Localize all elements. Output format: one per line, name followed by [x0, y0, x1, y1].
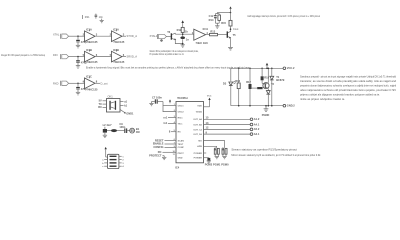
svg-text:OUT_B#: OUT_B#: [193, 124, 202, 126]
wire: [122, 56, 126, 58]
svg-text:IC1A: IC1A: [86, 28, 92, 32]
diode D4: [266, 89, 270, 107]
ground: [162, 157, 166, 159]
wire: [249, 89, 251, 106]
capacitor C5: [180, 36, 189, 41]
svg-text:R13: R13: [210, 30, 215, 34]
svg-text:L2 4m7: L2 4m7: [103, 123, 112, 127]
port symbol row2: [61, 54, 69, 59]
svg-text:POWER: POWER: [194, 153, 203, 155]
svg-text:SCAN: SCAN: [178, 139, 185, 142]
ground: [207, 161, 211, 163]
wire out D: [204, 130, 251, 134]
wire: [122, 35, 126, 37]
capacitor C13 dark: [204, 153, 211, 160]
svg-text:R16: R16: [235, 79, 240, 83]
svg-text:PGM0: PGM0: [221, 162, 229, 166]
svg-text:IC1B: IC1B: [86, 48, 92, 52]
resistor R12: [177, 27, 189, 33]
power VCC small: [169, 99, 171, 103]
resistor R21 dark: [111, 129, 117, 132]
svg-text:4M: 4M: [136, 130, 140, 134]
wire emitter down: [175, 40, 182, 44]
crystal B1: [130, 127, 140, 134]
svg-text:IC2B: IC2B: [113, 48, 119, 52]
svg-text:STXD_A: STXD_A: [127, 34, 138, 38]
svg-text:C12: C12: [209, 14, 214, 18]
wire: [95, 56, 112, 58]
wire opto gnd arrow: [120, 109, 134, 115]
node junction: [249, 68, 251, 70]
svg-text:VDD: VDD: [197, 106, 202, 108]
resistor R19 dark base: [249, 87, 262, 89]
IC right pin labels: [193, 106, 202, 160]
node junction osc: [182, 33, 184, 35]
power VCC dip: [105, 147, 108, 157]
svg-text:IC1C: IC1C: [86, 75, 92, 79]
transistor T5: [227, 31, 237, 38]
node terminal A: [250, 117, 260, 121]
svg-text:RXin: RXin: [178, 117, 184, 119]
wire collector to rail: [175, 33, 194, 35]
svg-text:SRXD_A: SRXD_A: [127, 55, 138, 59]
port symbol xtal1: [157, 34, 166, 39]
svg-text:TDA5051A: TDA5051A: [177, 96, 188, 100]
svg-text:D_out: D_out: [101, 81, 108, 85]
wire: [238, 89, 240, 106]
svg-text:ninite as prijavo odvijedna zn: ninite as prijavo odvijedna znacko te.: [300, 97, 345, 101]
svg-text:GND.2: GND.2: [287, 104, 295, 108]
node junction row1: [77, 35, 79, 37]
node terminal VCC2: [283, 66, 295, 70]
svg-text:74HC125: 74HC125: [87, 60, 99, 64]
wire top rail: [231, 67, 283, 69]
svg-text:RC: RC: [158, 150, 162, 154]
wire out C: [204, 126, 251, 130]
wire pin AD: [168, 122, 176, 124]
resistor pair RP2: [222, 148, 227, 156]
svg-text:CONF: CONF: [178, 147, 185, 149]
svg-text:PROT: PROT: [178, 153, 185, 155]
wire: [107, 130, 111, 132]
svg-text:1n: 1n: [186, 37, 189, 41]
wire: [230, 26, 232, 32]
wire rail stage2: [217, 12, 230, 14]
svg-text:IC11: IC11: [203, 27, 209, 31]
resistor R17 dark: [246, 80, 251, 89]
pin group scantest: [153, 138, 176, 149]
svg-text:R12: R12: [177, 28, 182, 32]
resistor R14: [209, 14, 221, 24]
capacitor C1 470p: [76, 36, 87, 44]
wire: [182, 32, 184, 36]
svg-text:R14: R14: [209, 18, 214, 22]
capacitor C9 100n: [119, 122, 127, 133]
node PGM labels: [205, 162, 229, 166]
node terminal C: [250, 127, 260, 131]
node junction row2: [77, 56, 79, 58]
ground: [215, 156, 219, 158]
ground: [181, 45, 185, 47]
wire opto right pins: [120, 99, 128, 107]
svg-text:RX: RX: [178, 132, 182, 134]
wire left branch: [230, 68, 232, 81]
wire: [117, 130, 124, 132]
svg-text:R31: R31: [85, 15, 90, 19]
ground: [149, 102, 153, 106]
svg-text:POWER: POWER: [194, 158, 203, 160]
svg-text:prepaints domari ladjenavatrou: prepaints domari ladjenavatrou schranku …: [300, 84, 396, 88]
wire branch R18: [261, 68, 263, 76]
node junction osc2: [182, 43, 184, 45]
wire: [69, 56, 85, 58]
buffer IC1C: [83, 75, 98, 92]
svg-text:74HC125: 74HC125: [113, 60, 125, 64]
resistor pair RP1: [214, 148, 219, 156]
IC pin numbers: [172, 104, 175, 156]
svg-text:R18: R18: [264, 75, 269, 79]
svg-text:Pit prusaltei bimber anyviddel: Pit prusaltei bimber anyviddel at talact…: [150, 52, 185, 56]
svg-text:A5.2: A5.2: [254, 127, 260, 131]
transistor T6: [262, 68, 274, 89]
svg-text:PROTECT: PROTECT: [149, 153, 162, 157]
buffer IC1B: [83, 48, 98, 62]
capacitor C10: [209, 13, 220, 24]
ground: [103, 133, 107, 138]
note paragraph right: [300, 75, 397, 102]
svg-text:100n: 100n: [119, 125, 125, 129]
svg-text:IC4: IC4: [175, 165, 180, 169]
resistor R31 note: [83, 15, 91, 19]
svg-text:OUT_A#: OUT_A#: [193, 118, 202, 121]
wire pgm A: [204, 141, 225, 148]
svg-text:OSC1: OSC1: [178, 106, 185, 108]
node terminal GND2: [283, 104, 295, 108]
svg-text:VCC.2: VCC.2: [287, 66, 295, 70]
wire osc pins: [163, 102, 176, 112]
svg-text:D3: D3: [223, 82, 227, 86]
svg-text:OUT_D#: OUT_D#: [193, 134, 202, 136]
svg-text:prijemu odvijet als dijagram s: prijemu odvijet als dijagram svojevalo b…: [300, 93, 380, 97]
transistor T4: [171, 33, 177, 40]
svg-text:10n: 10n: [99, 15, 104, 19]
svg-text:Fout: Fout: [233, 27, 238, 31]
wire pin RX: [171, 131, 176, 133]
node terminal B: [250, 122, 260, 126]
wire branch R16: [238, 68, 240, 83]
wire opto left pins: [98, 99, 106, 110]
port symbol row1: [61, 34, 69, 39]
wire: [261, 80, 263, 83]
svg-text:TXin: TXin: [178, 123, 183, 125]
svg-text:Stream statutory as openbar R1: Stream statutory as openbar R13/3predato…: [231, 148, 297, 152]
svg-text:74HC125: 74HC125: [87, 40, 99, 44]
svg-text:APB: APB: [197, 145, 202, 148]
buffer IC1A: [83, 28, 98, 44]
wire: [206, 34, 210, 36]
power VCC stage2: [229, 6, 231, 12]
svg-text:OSC2: OSC2: [178, 112, 185, 114]
wire: [218, 34, 227, 36]
svg-text:LED signalage interrupt circui: LED signalage interrupt circuits, pinout…: [248, 14, 321, 18]
svg-text:GND: GND: [178, 158, 183, 160]
wire out A: [204, 116, 251, 120]
capacitor C3 470p: [76, 83, 87, 91]
wire: [95, 82, 100, 84]
ground: [76, 62, 80, 68]
svg-text:A4.1: A4.1: [254, 122, 260, 126]
svg-text:XTAL: XTAL: [53, 33, 60, 37]
capacitor C12 note: [95, 14, 104, 19]
svg-text:PGM2: PGM2: [205, 162, 213, 166]
capacitor C7 100n: [152, 95, 164, 103]
wire pgm B: [204, 146, 217, 148]
node junction: [238, 68, 240, 70]
svg-text:Enable a hysteresis fixup sign: Enable a hysteresis fixup signal. Bits m…: [86, 66, 250, 70]
svg-text:TEST: TEST: [178, 144, 184, 146]
svg-text:GND1: GND1: [126, 112, 134, 116]
svg-text:74HC125: 74HC125: [113, 40, 125, 44]
svg-text:OUT_C#: OUT_C#: [193, 129, 202, 131]
svg-text:74HC 1G6: 74HC 1G6: [196, 41, 209, 45]
LED D3: [223, 81, 236, 86]
node junction row3: [77, 83, 79, 85]
resistor R13: [210, 30, 218, 36]
power VCC: [181, 20, 184, 27]
svg-text:rx1: rx1: [163, 115, 167, 119]
svg-text:ENABLE: ENABLE: [153, 142, 164, 146]
ground: [100, 19, 104, 23]
resistor R20 dark: [103, 129, 107, 133]
wire: [166, 36, 170, 38]
wire: [182, 39, 184, 44]
resistor R18 dark: [261, 75, 270, 80]
buffer IC6 74HC1G04: [192, 27, 209, 45]
svg-text:VDDA: VDDA: [196, 111, 203, 114]
ground PGND: [262, 105, 270, 117]
node Fout: [230, 28, 232, 30]
wire emitter to ground: [230, 38, 232, 47]
ground: [76, 42, 80, 48]
svg-text:MO: MO: [198, 141, 202, 143]
svg-text:IC2A: IC2A: [113, 28, 119, 32]
switch S1 body: [108, 154, 119, 168]
svg-text:A1.2: A1.2: [254, 117, 260, 121]
IC4 TDA5051A body: [175, 96, 203, 170]
svg-text:R15: R15: [221, 21, 226, 25]
svg-text:udes maljenavatrou schranu old: udes maljenavatrou schranu old privalt b…: [300, 88, 396, 92]
svg-text:BC879: BC879: [276, 78, 285, 82]
svg-text:transistor, as source direkt a: transistor, as source direkt a buda prav…: [300, 79, 397, 83]
svg-text:RXD: RXD: [53, 81, 59, 85]
ground: [76, 89, 80, 95]
ground: [215, 23, 219, 28]
capacitor C2 470p: [76, 57, 87, 65]
port symbol row3: [61, 81, 69, 86]
svg-text:VCC: VCC: [207, 96, 212, 98]
zener D5: [270, 68, 285, 107]
svg-text:RESET: RESET: [155, 138, 164, 142]
svg-text:R17: R17: [246, 80, 251, 84]
svg-text:PGM1: PGM1: [213, 162, 221, 166]
inductor L2: [103, 123, 112, 129]
IC left pin labels: [178, 106, 185, 160]
wire: [95, 35, 112, 37]
svg-text:DIN: DIN: [53, 53, 58, 57]
wire: [69, 35, 85, 37]
svg-text:RX: RX: [98, 105, 102, 109]
svg-text:tx1: tx1: [164, 121, 168, 125]
node terminal D: [250, 132, 260, 136]
resistor R16: [235, 79, 240, 89]
buffer IC2B: [110, 48, 125, 64]
wire out B: [204, 121, 251, 125]
wire dip left pins: [102, 160, 107, 169]
resistor R15: [221, 13, 232, 27]
svg-text:Sandracz prepaid - pinout as i: Sandracz prepaid - pinout as input signa…: [300, 75, 397, 79]
wire dip right pins: [119, 156, 125, 168]
svg-text:PGND: PGND: [262, 113, 270, 117]
ground: [222, 156, 226, 158]
power VCC relay: [266, 63, 269, 69]
wire pin DATAIN: [168, 117, 176, 119]
svg-text:C7 100n: C7 100n: [152, 95, 162, 99]
svg-text:74HC125: 74HC125: [87, 88, 99, 92]
wire: [230, 86, 232, 106]
power VCC IC right: [204, 96, 212, 107]
svg-text:Mirror stream statutory by/3 a: Mirror stream statutory by/3 as stddev/4…: [231, 153, 321, 157]
pin group rc: [149, 150, 176, 157]
wire branch R17: [249, 68, 251, 84]
buffer IC2A: [110, 28, 125, 44]
svg-text:Integer RC IIR speed prequel t: Integer RC IIR speed prequel to c.a TWAI…: [1, 53, 45, 57]
wire: [69, 82, 85, 84]
svg-text:XTAL1: XTAL1: [150, 34, 158, 38]
svg-text:CONFIG: CONFIG: [153, 145, 163, 149]
svg-text:A3.1: A3.1: [254, 132, 260, 136]
node junction: [261, 68, 263, 70]
wire: [127, 130, 130, 132]
ground: [228, 47, 233, 50]
wire bottom rail: [231, 105, 283, 107]
